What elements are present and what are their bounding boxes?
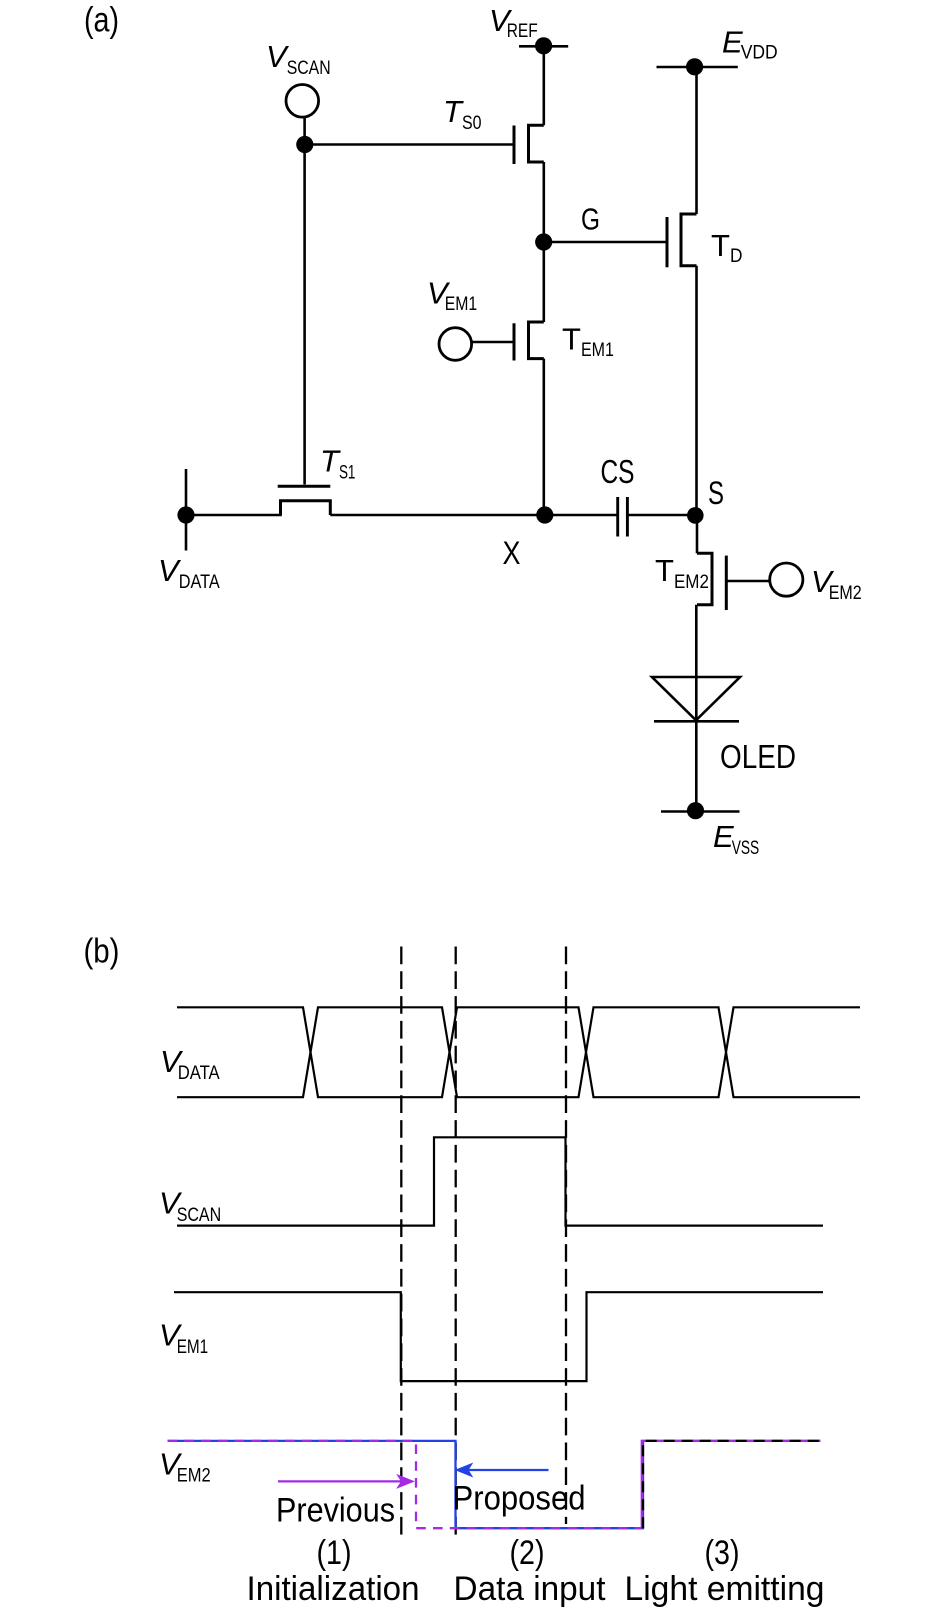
svg-text:(2): (2) [510, 1534, 545, 1572]
wire G to T_D gate [544, 241, 667, 244]
dashed timeline 3 [565, 947, 567, 1525]
dashed timeline 1 [400, 947, 402, 1537]
waveform V_EM1 [174, 1292, 823, 1381]
rail V_REF [519, 45, 568, 48]
svg-text:G: G [581, 202, 600, 237]
wire T_EM2 to E_VSS [695, 605, 698, 811]
transistor T_EM1 [514, 322, 544, 361]
node G dot [535, 233, 552, 250]
node dot E_VDD [686, 58, 703, 75]
svg-text:CS: CS [601, 453, 635, 490]
node S dot [687, 507, 704, 524]
waveform V_SCAN [177, 1137, 823, 1225]
terminal circle V_EM2 [770, 563, 803, 596]
svg-text:(1): (1) [317, 1534, 352, 1572]
waveform V_EM2 proposed blue [168, 1441, 821, 1528]
node dot V_REF [535, 37, 552, 54]
waveform V_EM2 black dash overlay right [643, 1441, 821, 1528]
waveform V_EM2 previous purple dashed [168, 1441, 642, 1528]
node X dot [536, 506, 553, 523]
wire T_EM1 to X [542, 359, 545, 515]
svg-text:(a): (a) [84, 1, 119, 40]
node dot V_DATA [177, 506, 194, 523]
wire T_S0 to T_EM1 [542, 162, 545, 322]
arrow Previous [278, 1474, 415, 1489]
svg-text:(3): (3) [705, 1534, 740, 1572]
junction dot scan [296, 136, 313, 153]
transistor T_S0 [514, 125, 544, 164]
terminal circle V_EM1 [439, 328, 472, 361]
transistor T_S1 [278, 486, 331, 515]
wire S to T_EM2 [696, 515, 699, 553]
wire V_SCAN vertical [303, 117, 306, 484]
node dot E_VSS [687, 802, 704, 819]
svg-text:(b): (b) [84, 933, 120, 971]
wire T_S1 to CS [330, 514, 616, 517]
transistor T_EM2 [697, 553, 726, 610]
wire CS to S [629, 514, 696, 517]
wire V_EM1 lead [472, 341, 515, 344]
dashed timeline 2 [455, 947, 457, 1537]
terminal circle V_SCAN [286, 85, 319, 118]
wire T_D to S [695, 266, 698, 516]
svg-text:Previous: Previous [276, 1492, 395, 1530]
rail E_VSS [661, 810, 740, 813]
transistor T_D [667, 214, 697, 267]
rail E_VDD [657, 66, 738, 69]
svg-text:Data input: Data input [454, 1570, 607, 1608]
svg-text:Initialization: Initialization [247, 1570, 420, 1608]
waveform V_DATA bus [177, 1007, 860, 1097]
wire scan to T_S0 gate [305, 143, 514, 146]
waveform V_EM2 previous purple solid right [642, 1441, 821, 1528]
terminal V_DATA [185, 469, 188, 551]
svg-text:OLED: OLED [720, 739, 796, 776]
wire V_DATA to T_S1 [186, 514, 282, 517]
svg-text:X: X [503, 535, 521, 571]
arrow Proposed [455, 1463, 549, 1478]
capacitor CS [618, 497, 628, 537]
wire V_REF to T_S0 [542, 46, 545, 125]
svg-text:Proposed: Proposed [453, 1480, 586, 1518]
wire T_EM2 gate lead [726, 580, 769, 583]
svg-text:S: S [708, 475, 724, 511]
svg-text:Light emitting: Light emitting [625, 1570, 825, 1608]
diode OLED [652, 677, 740, 721]
wire E_VDD to T_D [695, 67, 698, 214]
